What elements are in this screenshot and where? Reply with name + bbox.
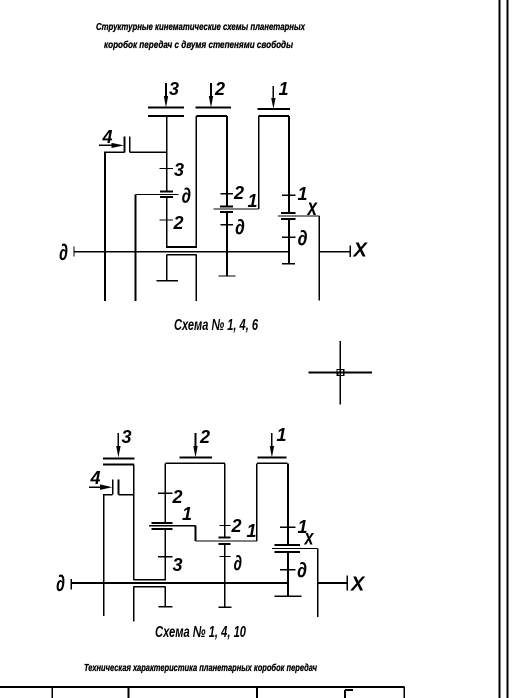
svg-text:2: 2 <box>199 427 210 447</box>
svg-text:2: 2 <box>231 516 242 536</box>
svg-text:∂: ∂ <box>298 227 308 250</box>
svg-text:1: 1 <box>248 191 258 211</box>
svg-text:4: 4 <box>90 468 101 488</box>
svg-text:1: 1 <box>277 425 287 445</box>
svg-text:2: 2 <box>172 487 183 507</box>
svg-text:∂: ∂ <box>235 216 245 239</box>
svg-text:∂: ∂ <box>59 239 68 265</box>
svg-text:∂: ∂ <box>234 552 243 575</box>
svg-text:1: 1 <box>247 521 257 541</box>
svg-text:3: 3 <box>122 427 132 447</box>
svg-text:1: 1 <box>298 184 308 204</box>
svg-text:∂: ∂ <box>56 570 65 596</box>
svg-text:3: 3 <box>169 79 179 99</box>
svg-text:X: X <box>350 574 366 596</box>
svg-text:Техническая характеристика пла: Техническая характеристика планетарных к… <box>84 662 317 674</box>
svg-text:Схема № 1, 4, 10: Схема № 1, 4, 10 <box>155 624 246 641</box>
svg-text:4: 4 <box>102 127 113 147</box>
svg-text:∂: ∂ <box>297 559 307 582</box>
svg-text:3: 3 <box>174 160 184 180</box>
svg-text:2: 2 <box>173 213 184 233</box>
svg-text:Структурные кинематические схе: Структурные кинематические схемы планета… <box>96 21 306 33</box>
svg-text:3: 3 <box>173 555 183 575</box>
svg-text:Схема № 1, 4, 6: Схема № 1, 4, 6 <box>174 317 258 334</box>
svg-text:x: x <box>304 527 315 550</box>
svg-text:1: 1 <box>279 79 289 99</box>
svg-text:∂: ∂ <box>182 185 192 208</box>
svg-text:коробок передач с двумя степен: коробок передач с двумя степенями свобод… <box>104 39 293 51</box>
svg-text:1: 1 <box>182 504 192 524</box>
svg-text:2: 2 <box>233 183 244 203</box>
svg-text:X: X <box>353 240 369 262</box>
svg-text:2: 2 <box>214 79 225 99</box>
